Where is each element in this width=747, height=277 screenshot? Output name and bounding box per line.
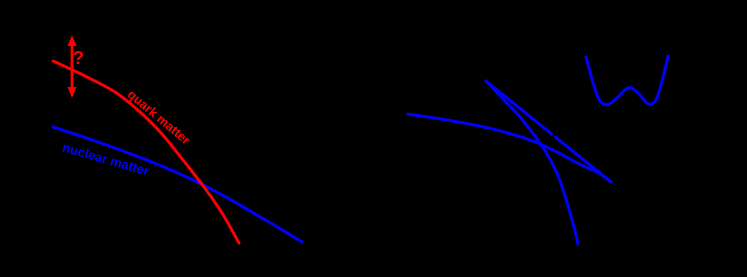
double-well potential inset <box>586 56 668 105</box>
right panel: steep descending branch <box>486 81 578 244</box>
right panel: gentle arc <box>408 114 611 182</box>
quark matter curve (left panel, red) <box>53 61 239 243</box>
nuclear matter curve (left panel, blue) <box>53 127 302 242</box>
right panel: upper branch segment 2 <box>556 137 612 182</box>
svg-text:?: ? <box>73 47 84 68</box>
double-headed arrow <box>68 35 77 98</box>
right panel: upper branch segment 1 <box>486 81 552 134</box>
